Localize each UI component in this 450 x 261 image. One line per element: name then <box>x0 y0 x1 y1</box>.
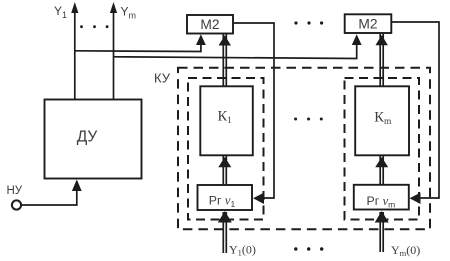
arrowhead Y1(0) into Rg nu1 <box>218 211 232 223</box>
node NU circle <box>12 200 21 209</box>
double wire Km to M2 #2 <box>379 34 381 86</box>
svg-text:Y1(0): Y1(0) <box>229 243 256 258</box>
arrowhead Rg nu1 to K1 <box>218 157 231 167</box>
svg-text:М2: М2 <box>200 17 219 32</box>
block K1 <box>200 86 253 155</box>
arrowhead into Rg nu1 right <box>253 193 264 204</box>
wire Ym vertical <box>113 12 115 100</box>
double wire Ym(0) input <box>379 212 381 252</box>
dots top left <box>80 25 108 28</box>
arrowhead NU into DU bottom <box>72 180 82 192</box>
svg-text:НУ: НУ <box>7 185 23 197</box>
dashed box channel 1 <box>188 78 264 220</box>
arrowhead Ym <box>110 2 117 13</box>
svg-text:Ym(0): Ym(0) <box>391 243 420 258</box>
arrowhead into M2 #2 left <box>352 34 362 45</box>
wire M2 #2 output to Rg num <box>391 22 439 198</box>
arrowhead K1 to M2 #1 <box>219 35 231 45</box>
arrowhead into Rg num right <box>410 193 421 204</box>
dots middle <box>294 118 323 121</box>
block Rg nu1 <box>198 185 253 210</box>
dashed box channel m <box>345 78 420 220</box>
double wire K1 to M2 #1 <box>222 34 224 86</box>
arrowhead Ym(0) into Rg num <box>375 211 389 223</box>
block DU <box>45 100 142 179</box>
block M2 #1 <box>187 15 233 34</box>
block Km <box>355 86 409 155</box>
arrowhead Rg num to Km <box>375 157 388 167</box>
arrowhead into M2 #1 left <box>196 34 206 45</box>
arrowhead Km to M2 #2 <box>376 35 388 45</box>
wire NU to DU <box>21 181 77 205</box>
wire rung and branch to M2 #1 <box>75 42 201 52</box>
svg-text:КУ: КУ <box>154 71 171 86</box>
arrowhead Y1 <box>71 2 78 13</box>
wire M2 #1 output to Rg nu1 <box>233 23 274 198</box>
double wire Rg num to Km <box>379 156 381 185</box>
svg-text:М2: М2 <box>358 17 377 32</box>
wire branch to M2 #2 <box>114 42 357 59</box>
dots bottom <box>294 247 323 250</box>
wire Y1 vertical <box>74 12 76 100</box>
double wire Y1(0) input <box>222 212 224 253</box>
svg-text:ДУ: ДУ <box>77 129 98 146</box>
double wire Rg nu1 to K1 <box>222 156 224 185</box>
block Rg num <box>354 185 409 210</box>
dots top middle <box>294 21 323 24</box>
block M2 #2 <box>345 14 392 33</box>
dashed box KU outer <box>178 68 430 229</box>
